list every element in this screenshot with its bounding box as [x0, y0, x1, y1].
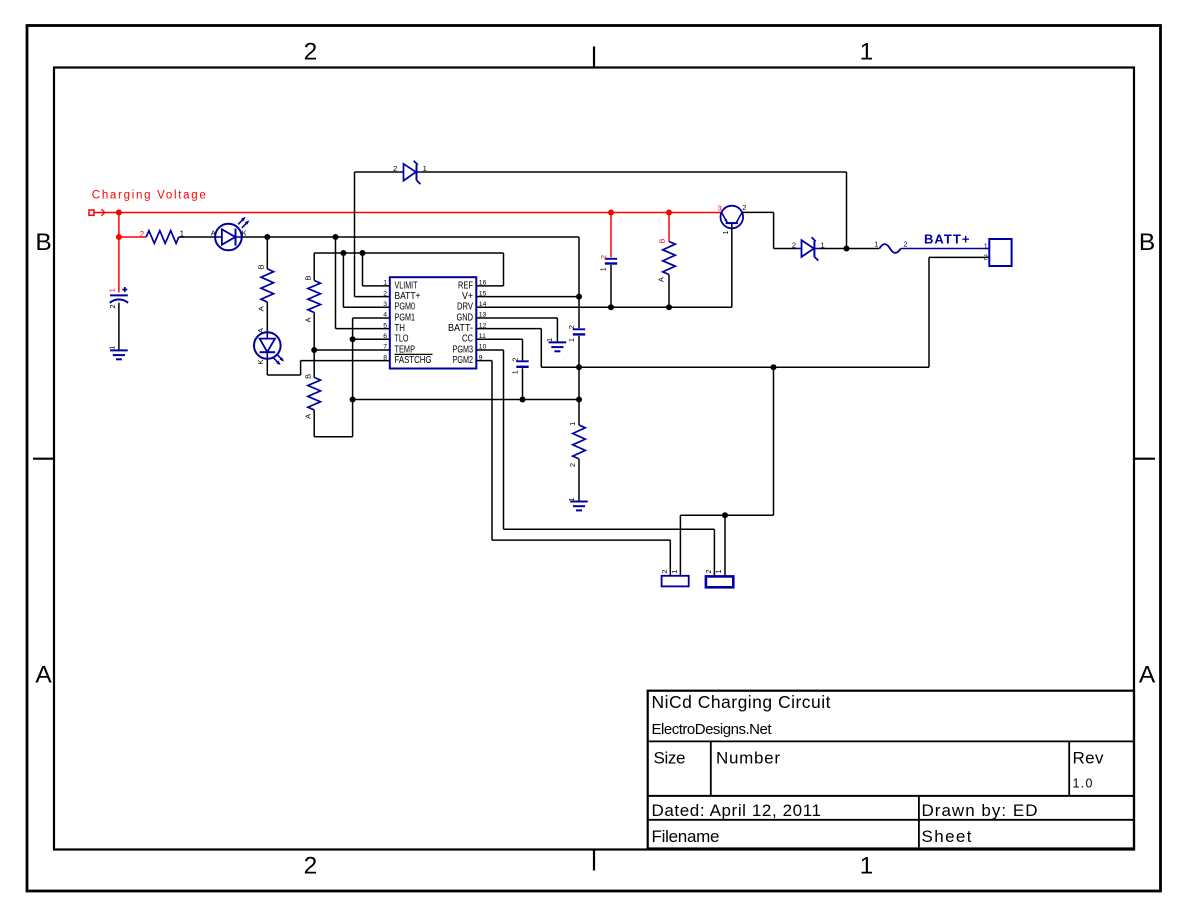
svg-text:1: 1 — [568, 422, 577, 426]
wire BATT- net — [476, 257, 989, 367]
pin 13 GND — [457, 312, 487, 324]
wire R1 to LED D3 — [179, 236, 215, 238]
junction C1-R1 branch — [116, 234, 122, 240]
svg-text:B: B — [35, 229, 51, 256]
pin 14 DRV — [457, 301, 487, 313]
wire GND pin to ground G2 — [476, 318, 557, 342]
resistor R1 — [146, 231, 179, 244]
svg-text:FASTCHG: FASTCHG — [395, 355, 432, 366]
svg-text:A: A — [1139, 662, 1156, 689]
wire CC to C2 — [476, 339, 522, 360]
svg-text:2: 2 — [510, 358, 519, 362]
pin 7 TEMP — [383, 344, 415, 356]
svg-text:1: 1 — [567, 498, 576, 502]
svg-text:B: B — [657, 238, 666, 243]
svg-text:1: 1 — [721, 230, 730, 234]
pin 8 FASTCHG — [383, 354, 432, 366]
junction DRV-C4 — [608, 304, 614, 310]
svg-text:TH: TH — [395, 323, 406, 334]
svg-text:REF: REF — [458, 280, 473, 291]
ground G2 — [549, 342, 567, 351]
svg-text:TLO: TLO — [395, 334, 409, 345]
svg-text:2: 2 — [140, 230, 145, 239]
junction PGM1-R5 column — [576, 397, 582, 403]
junction net-R2 — [264, 234, 270, 240]
wire D2 to node — [819, 248, 880, 250]
wire TH up to LED net — [336, 237, 390, 329]
svg-text:A: A — [656, 277, 665, 282]
svg-text:1: 1 — [714, 569, 723, 573]
svg-text:1: 1 — [567, 338, 576, 342]
title block — [648, 691, 1134, 849]
svg-text:1: 1 — [511, 370, 520, 374]
wire D1 to transistor output node — [421, 172, 847, 249]
svg-text:1: 1 — [108, 288, 117, 292]
svg-text:Dated: April 12, 2011: Dated: April 12, 2011 — [652, 801, 822, 820]
pin 9 PGM2 — [453, 354, 483, 366]
capacitor C4 — [605, 259, 617, 264]
wire PGM1 net horizontal — [353, 399, 579, 401]
pin 6 TLO — [383, 333, 408, 345]
svg-text:2: 2 — [660, 569, 669, 573]
svg-text:B: B — [1139, 229, 1155, 256]
svg-text:Rev: Rev — [1073, 749, 1105, 768]
svg-text:BATT+: BATT+ — [395, 291, 421, 302]
svg-text:2: 2 — [304, 853, 318, 880]
svg-text:BATT-: BATT- — [448, 323, 473, 334]
pin 4 PGM1 — [383, 312, 415, 324]
svg-text:2: 2 — [567, 325, 576, 329]
op-amp U1 charge controller — [390, 277, 477, 368]
wire ref net horizontal — [314, 253, 503, 286]
junction rail-C1 — [116, 210, 122, 216]
svg-text:2: 2 — [568, 463, 577, 467]
resistor R3 — [308, 350, 353, 437]
wire DRV — [476, 306, 732, 308]
inductor L1 — [879, 244, 900, 253]
ground G3 — [570, 502, 588, 511]
wire BATT- to connectors P1 P2 — [680, 367, 773, 576]
diode D2 — [797, 237, 819, 260]
resistor R5 — [573, 425, 586, 502]
svg-text:2: 2 — [393, 164, 397, 173]
wire LED D3 cathode net — [242, 237, 579, 328]
svg-text:Size: Size — [654, 749, 686, 768]
pin 11 CC — [462, 333, 486, 345]
junction net-V+ — [576, 294, 582, 300]
svg-text:Number: Number — [716, 749, 780, 768]
junction D2 output node — [844, 246, 850, 252]
svg-text:1: 1 — [860, 853, 874, 880]
transistor Q1 — [721, 206, 744, 229]
junction TEMP-R4-R3 — [311, 347, 317, 353]
wire PGM0 to ref net — [343, 253, 389, 307]
svg-text:1: 1 — [860, 39, 874, 66]
svg-text:2: 2 — [984, 253, 988, 262]
wire TEMP to R4/R3 — [314, 349, 390, 351]
svg-text:PGM2: PGM2 — [453, 355, 474, 366]
svg-text:BATT+: BATT+ — [924, 232, 970, 247]
resistor R2 — [261, 237, 274, 332]
wire to C1 — [118, 213, 120, 293]
svg-text:A: A — [303, 414, 312, 419]
wire C3 column — [578, 336, 580, 425]
junction BATT- connector drop — [771, 364, 777, 370]
wire Q1 emitter to DRV — [731, 228, 733, 307]
svg-text:A: A — [211, 229, 216, 238]
svg-text:A: A — [35, 662, 52, 689]
svg-text:1: 1 — [984, 241, 988, 250]
junction rail-R7 — [666, 210, 672, 216]
wire TLO stub — [353, 338, 390, 340]
wire VLIMIT to ref net — [363, 253, 390, 286]
svg-text:1: 1 — [107, 346, 116, 350]
wire rail to R7 — [668, 213, 670, 242]
svg-text:B: B — [303, 275, 312, 280]
svg-text:DRV: DRV — [457, 302, 473, 313]
svg-text:A: A — [303, 317, 312, 322]
svg-text:Filename: Filename — [652, 827, 720, 846]
connector P2 — [706, 576, 733, 587]
svg-text:1: 1 — [599, 267, 608, 271]
pin 15 V+ — [462, 290, 487, 302]
connector J1 BATT — [989, 239, 1011, 266]
wire PGM2 to P1 — [476, 361, 670, 576]
svg-text:2: 2 — [599, 255, 608, 259]
wire PGM3 to P2 — [476, 350, 714, 576]
pin 1 VLIMIT — [383, 280, 417, 292]
junction BATT- C3 column — [576, 364, 582, 370]
svg-text:2: 2 — [742, 203, 746, 212]
pin 2 BATT+ — [383, 290, 420, 302]
wire to R1 — [119, 236, 146, 238]
svg-text:2: 2 — [903, 239, 907, 248]
svg-text:NiCd Charging Circuit: NiCd Charging Circuit — [652, 692, 831, 712]
svg-text:CC: CC — [462, 334, 473, 345]
svg-text:GND: GND — [457, 312, 474, 323]
capacitor C3 — [573, 329, 585, 334]
connector P1 — [662, 576, 689, 587]
junction ref-VLIMIT — [360, 250, 366, 256]
svg-text:B: B — [303, 374, 312, 379]
svg-text:1: 1 — [545, 338, 554, 342]
svg-text:2: 2 — [108, 304, 117, 308]
capacitor C1 — [110, 287, 128, 303]
svg-text:1: 1 — [874, 239, 878, 248]
LED D4 — [254, 332, 284, 365]
pin 12 BATT- — [448, 322, 487, 334]
wire C2 to PGM1 net — [522, 368, 524, 399]
resistor R7 — [663, 242, 676, 308]
diode D1 — [399, 161, 421, 184]
pin 16 REF — [458, 280, 487, 292]
svg-text:Sheet: Sheet — [922, 827, 972, 846]
LED D3 — [215, 217, 249, 251]
wire PGM1 / TLO vertical — [353, 318, 390, 437]
svg-text:Drawn by: ED: Drawn by: ED — [922, 801, 1038, 820]
junction DRV-R7 — [666, 304, 672, 310]
junction P2 pin1 — [722, 512, 728, 518]
junction TLO — [350, 336, 356, 342]
pin 5 TH — [383, 322, 405, 334]
pin 10 PGM3 — [453, 344, 487, 356]
svg-text:VLIMIT: VLIMIT — [395, 280, 418, 291]
junction PGM1-C2 — [520, 397, 526, 403]
svg-text:V+: V+ — [462, 291, 473, 302]
svg-text:ElectroDesigns.Net: ElectroDesigns.Net — [652, 721, 773, 738]
wire C4 to DRV — [610, 265, 612, 307]
wire Q1 collector to D2 — [742, 212, 797, 248]
svg-text:2: 2 — [704, 569, 713, 573]
wire V+ — [476, 296, 579, 298]
junction net-TH — [333, 234, 339, 240]
svg-text:2: 2 — [792, 240, 796, 249]
wire charging voltage rail — [94, 212, 722, 214]
wire rail to C4 — [610, 213, 612, 258]
svg-text:PGM0: PGM0 — [395, 302, 416, 313]
svg-text:2: 2 — [304, 39, 318, 66]
svg-text:TEMP: TEMP — [395, 344, 416, 355]
svg-text:A: A — [256, 306, 265, 311]
svg-text:PGM3: PGM3 — [453, 344, 474, 355]
svg-text:1.0: 1.0 — [1073, 777, 1093, 791]
wire BATT+ net — [901, 248, 990, 250]
junction PGM1-R3 — [350, 397, 356, 403]
ground G1 — [110, 350, 128, 359]
svg-text:K: K — [256, 359, 265, 364]
wire C1 to ground — [118, 303, 120, 351]
svg-text:3: 3 — [718, 204, 722, 213]
resistor R4 — [308, 281, 321, 351]
svg-text:PGM1: PGM1 — [395, 312, 416, 323]
wire BATT+ pin2 to diode D1 — [355, 172, 400, 297]
pin 3 PGM0 — [383, 301, 415, 313]
junction rail-C4 — [608, 210, 614, 216]
capacitor C2 — [516, 361, 528, 367]
svg-text:A: A — [256, 328, 265, 333]
svg-text:1: 1 — [670, 569, 679, 573]
junction ref-PGM0 — [340, 250, 346, 256]
wire FASTCHG to LED D4 cathode — [267, 359, 390, 375]
port Charging Voltage — [89, 209, 105, 216]
svg-text:B: B — [256, 264, 265, 269]
